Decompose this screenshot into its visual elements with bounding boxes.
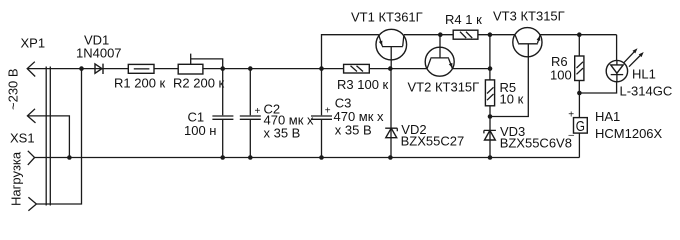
svg-text:Нагрузка: Нагрузка [9,151,24,206]
wire: R4 to VT3 collector [478,34,515,36]
node: XP1 pin2 joins bottom rail [67,155,72,160]
svg-text:+: + [568,109,574,120]
wire: VD1 to R1 [103,68,128,70]
svg-text:HCM1206X: HCM1206X [595,126,663,141]
node: VT3 base tap [488,114,493,119]
wire: VT2 emitter to R5 column [453,68,491,70]
wire: top rail left segment with elbow down to main wire [322,35,379,69]
node: C1 tap [220,66,225,71]
plug XP1 pin 2 [27,109,35,123]
capacitor C1 [222,69,224,158]
diode VD1 [95,64,103,74]
svg-text:R1 200 к: R1 200 к [114,75,166,90]
svg-text:VT3 КТ315Г: VT3 КТ315Г [493,9,565,24]
svg-text:BZX55C27: BZX55C27 [401,133,465,148]
svg-text:10 к: 10 к [500,92,524,107]
node: C2 tap [248,66,253,71]
wire: VT3 base elbow [490,44,528,117]
wire: VT2 base lead [439,35,441,58]
node: R6 tap [577,32,582,37]
svg-text:HA1: HA1 [595,109,620,124]
trimmer resistor R2 [178,64,203,74]
capacitor C3 [321,69,323,158]
svg-text:x 35 В: x 35 В [264,125,301,140]
transistor VT2 [425,47,454,76]
svg-text:+: + [325,106,331,117]
svg-text:~230 В: ~230 В [6,68,21,110]
resistor R1 [128,64,154,73]
svg-text:VT2 КТ315Г: VT2 КТ315Г [408,79,480,94]
buzzer HA1 with leads [578,93,580,158]
svg-text:100: 100 [550,67,572,82]
wire: R3 to VT2 collector [369,68,427,70]
svg-text:x 35 В: x 35 В [335,122,372,137]
svg-text:XS1: XS1 [10,131,35,146]
svg-text:BZX55C6V8: BZX55C6V8 [500,135,572,150]
transistor VT3 [513,28,542,57]
svg-text:1N4007: 1N4007 [76,45,122,60]
wire: R5 to VD3 [489,106,491,158]
node: VT1 base / VD2 / VT2 collector [388,66,393,71]
svg-text:HL1: HL1 [632,66,656,81]
node: VD1 anode / neutral drop [79,66,84,71]
HL1 light arrows [623,50,641,66]
svg-text:R3 100 к: R3 100 к [337,77,389,92]
node: VD2 anode on rail [388,155,393,160]
wire: column from R4 down through VT2 emitter node to R5 [489,35,491,80]
wire: XP1 pin2 down to bottom rail [27,116,69,158]
svg-text:G: G [576,119,585,135]
resistor R5 [485,80,494,106]
wire: R2 to R3 [203,68,344,70]
node: C3 / VT1 emitter tap [319,66,324,71]
wire: vertical neutral column to XS1 pin2 [36,69,81,204]
resistor R3 [344,64,370,73]
svg-text:+: + [255,106,261,117]
svg-text:L-314GC: L-314GC [620,83,673,98]
zener diode VD2 with lead [390,69,392,158]
zener diode VD3 [484,130,496,133]
LED HL1 with leads [579,35,616,93]
svg-text:R4 1 к: R4 1 к [445,12,482,27]
svg-text:XP1: XP1 [21,36,46,51]
wire: mains live from XP1 pin1 to VD1 [27,68,103,70]
transistor VT1 [376,29,407,60]
svg-text:VT1 КТ361Г: VT1 КТ361Г [351,10,423,25]
wire: top rail VT3 emitter to HL1 [540,34,617,36]
wire: R2 wiper [191,54,223,69]
plug XP1 pin 1 [27,62,35,77]
connector separation lines [46,67,50,206]
node: C2 on rail [248,155,253,160]
socket XS1 pin 2 [28,197,36,210]
svg-text:100 н: 100 н [184,123,216,138]
svg-text:R2 200 к: R2 200 к [173,75,225,90]
capacitor C2 [249,69,251,158]
node: C1 on rail [220,155,225,160]
resistor R6 with leads [578,35,580,93]
node: R6 / HL1 / HA1 junction [577,91,582,96]
wire: bottom common rail [35,157,580,159]
node: VD3 anode on rail [488,155,493,160]
wire: R1 to R2 [154,68,178,70]
node: VT2 emitter junction [488,66,493,71]
wire: top rail VT1 collector to R4 [404,34,453,36]
node: R4 right / R5 column [488,32,493,37]
resistor R4 [453,30,478,39]
node: C3 on rail [319,155,324,160]
socket XS1 pin 1 [28,151,35,165]
svg-text:–: – [569,130,575,141]
node: VT2 base tap [438,32,443,37]
